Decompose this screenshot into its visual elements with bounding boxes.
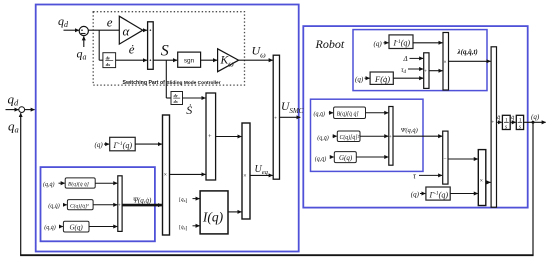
block integrator2 1/s	[516, 115, 523, 130]
node feedback junction dot on (q) output	[532, 121, 535, 124]
svg-text:Ψ(q,q̇): Ψ(q,q̇)	[401, 127, 418, 134]
svg-text:Sliding Mode Controller: Sliding Mode Controller	[167, 80, 221, 86]
svg-text:(q): (q)	[374, 40, 383, 48]
sum block A1	[206, 93, 216, 180]
svg-text:+: +	[389, 135, 392, 140]
svg-text:Ṡ: Ṡ	[186, 102, 192, 117]
wire D2 to sum A1	[183, 97, 206, 99]
wire Gamma robot to product	[450, 193, 478, 195]
sum bar big accel	[491, 47, 496, 207]
wire I-inv to product	[413, 42, 442, 44]
wire alpha to mux	[143, 29, 147, 31]
svg-text:B(q)[q̇ q̇]: B(q)[q̇ q̇]	[68, 181, 89, 188]
product bar P2 U_eq	[242, 123, 250, 219]
svg-text:F(q̇): F(q̇)	[374, 74, 390, 84]
svg-text:G(q): G(q)	[339, 154, 353, 162]
block Gamma^-1(q) left	[110, 137, 136, 151]
blue box robot Psi subsystem	[311, 99, 424, 171]
svg-text:dy: dy	[174, 93, 178, 98]
svg-text:(q,q̇): (q,q̇)	[43, 181, 55, 188]
svg-text:(q): (q)	[531, 113, 540, 121]
block integrator1 1/s	[502, 115, 510, 130]
svg-text:(q): (q)	[355, 76, 364, 84]
wire e from sum to gain alpha with branch to derivative	[88, 30, 119, 60]
wire Psi thick output to P1	[122, 204, 162, 207]
svg-text:Ψ(q,q̇): Ψ(q,q̇)	[133, 197, 152, 205]
wire qddot to integrator1	[497, 121, 502, 123]
svg-text:×: ×	[243, 174, 246, 180]
wire P1 to sum A1	[170, 173, 206, 175]
wire D1 to mux	[116, 59, 147, 61]
wire (q) stub	[104, 143, 109, 145]
blue box robot upper dynamics	[353, 30, 487, 91]
wire stub (q) to F	[365, 77, 370, 79]
svg-text:G(q): G(q)	[70, 224, 84, 232]
wire I(q) to P2	[228, 211, 241, 213]
sum bar S1 U_SMC	[273, 55, 279, 179]
sum bar tau-Psi	[443, 131, 448, 184]
wire stub row3	[60, 226, 63, 228]
svg-text:(q,q̇): (q,q̇)	[44, 224, 56, 231]
svg-text:q̇: q̇	[511, 115, 514, 121]
sum bar Psi robot	[389, 107, 393, 166]
sum bar robot upper	[424, 53, 429, 89]
gain alpha triangle	[119, 16, 143, 44]
svg-text:ė: ė	[129, 42, 135, 57]
svg-text:(q,q̇): (q,q̇)	[48, 202, 60, 209]
dashed box Switching Part of Sliding Mode Controller	[93, 12, 244, 85]
Robot outer blue box	[303, 26, 527, 208]
svg-text:×: ×	[164, 173, 167, 179]
node sum junction qd-qa	[79, 26, 88, 35]
svg-text:×: ×	[480, 179, 483, 185]
svg-text:q̈: q̈	[497, 115, 500, 121]
wire tau stub	[419, 174, 442, 176]
block Gamma^-1(q) robot	[426, 187, 450, 200]
wire G to sum left	[89, 226, 117, 228]
svg-text:Switching Part of: Switching Part of	[123, 80, 166, 86]
wire (q) output	[524, 121, 546, 123]
wire stub row2	[64, 204, 67, 206]
svg-text:Γ-1(q): Γ-1(q)	[429, 190, 449, 199]
wire U_omega K to SMC sum bar	[239, 59, 273, 61]
wire qd stub into sum	[64, 29, 79, 31]
wire C to sum left	[93, 204, 117, 206]
wire bus into controller box	[25, 109, 35, 111]
wire stub (q) to I-inv	[384, 42, 389, 44]
block B(q) robot	[334, 107, 366, 119]
wire stub robot row1	[329, 112, 333, 114]
product bar P1	[163, 115, 170, 235]
block C(q) robot	[337, 131, 360, 142]
wire Psi robot to tau sum	[393, 135, 442, 137]
controller outer blue box	[36, 5, 299, 252]
wire sum to product robot upper	[429, 70, 442, 72]
svg-text:α: α	[123, 24, 131, 39]
wire A1 to product P2	[216, 136, 242, 138]
svg-text:(q): (q)	[411, 190, 420, 198]
svg-text:[q̇a]: [q̇a]	[179, 197, 187, 204]
wire B to sum robot	[366, 112, 389, 114]
svg-text:sgn: sgn	[184, 58, 195, 65]
wire B to sum left	[95, 182, 117, 184]
node qd/qa merge circle	[19, 107, 25, 113]
svg-text:B(q)[q̇ q̇]: B(q)[q̇ q̇]	[337, 110, 359, 117]
svg-text:Δ: Δ	[403, 55, 408, 63]
wire U_eq P2 to SMC bar	[250, 174, 273, 176]
svg-text:(q): (q)	[95, 141, 104, 149]
wire Gamma to product P1	[135, 143, 162, 145]
svg-text:+: +	[491, 121, 494, 126]
svg-text:Γ-1(q): Γ-1(q)	[113, 141, 133, 150]
wire sgn to gain K	[201, 59, 217, 61]
svg-text:+: +	[274, 116, 277, 122]
svg-text:e: e	[107, 15, 113, 30]
block I(q)	[200, 191, 228, 234]
wire stub into I(q) bottom	[193, 225, 200, 227]
blue box Psi subsystem left	[41, 167, 155, 241]
mux M1 bar	[148, 22, 154, 70]
block C(q) left	[67, 200, 93, 210]
wire Delta stub	[410, 57, 424, 59]
block I^-1(q)	[389, 35, 413, 49]
svg-text:S: S	[161, 43, 169, 60]
svg-text:dx: dx	[106, 62, 111, 67]
wire U_SMC output to robot	[280, 116, 301, 118]
wire S from mux to sgn with branch down	[153, 60, 177, 98]
svg-text:dx: dx	[174, 99, 178, 104]
wire tau_d stub	[408, 68, 423, 70]
svg-text:C(q)[q̇]²: C(q)[q̇]²	[70, 202, 89, 209]
product bar robot lower	[478, 150, 486, 206]
svg-text:×: ×	[444, 60, 447, 66]
wire stub into I(q) top	[193, 198, 200, 200]
wire feedback loop (q) right side down, bottom, left side up	[20, 113, 534, 255]
wire lambda to big sum bar	[449, 60, 491, 62]
svg-text:+: +	[118, 203, 121, 208]
wire G to sum robot	[356, 156, 388, 158]
svg-text:C(q)[q̇]²: C(q)[q̇]²	[340, 134, 360, 141]
product bar robot upper	[443, 33, 449, 91]
wire qdot integrator1 to integrator2	[510, 121, 516, 123]
svg-text:(q,q̇): (q,q̇)	[317, 135, 329, 142]
wire tau sum to product robot lower	[448, 158, 478, 160]
sum bar Psi left	[118, 176, 122, 232]
block sgn	[178, 52, 201, 67]
wire qa stub into sum bottom	[83, 36, 85, 47]
block B(q) left	[65, 178, 95, 188]
wire stub robot row3	[330, 156, 333, 158]
svg-text:I(q): I(q)	[202, 210, 224, 225]
wire stub row1	[59, 182, 65, 184]
block F(qdot)	[370, 72, 393, 84]
svg-text:−: −	[443, 157, 446, 163]
svg-text:(q,q̇): (q,q̇)	[315, 156, 327, 163]
svg-text:+: +	[208, 133, 212, 140]
svg-text:Robot: Robot	[315, 37, 345, 51]
svg-text:+: +	[424, 70, 427, 75]
block G(q) left	[63, 221, 89, 232]
wire F to sum bar	[393, 77, 423, 79]
wire stub (q) robot Gamma	[420, 193, 425, 195]
svg-text:λ(q,q̇,t): λ(q,q̇,t)	[457, 48, 478, 56]
wire stub robot row2	[333, 135, 337, 137]
svg-text:I-1(q): I-1(q)	[393, 39, 411, 48]
wire qd external input	[6, 109, 19, 111]
derivative block dy/dx D2	[171, 92, 183, 105]
gain K_omega triangle	[218, 49, 239, 72]
svg-text:[q̇a]: [q̇a]	[179, 225, 187, 232]
block G(q) robot	[334, 152, 356, 163]
svg-text:(q,q̇): (q,q̇)	[314, 111, 326, 118]
derivative block dy/dx D1	[103, 53, 116, 68]
wire C to sum robot	[360, 135, 388, 137]
wire product robot lower to big sum bar	[486, 181, 491, 183]
